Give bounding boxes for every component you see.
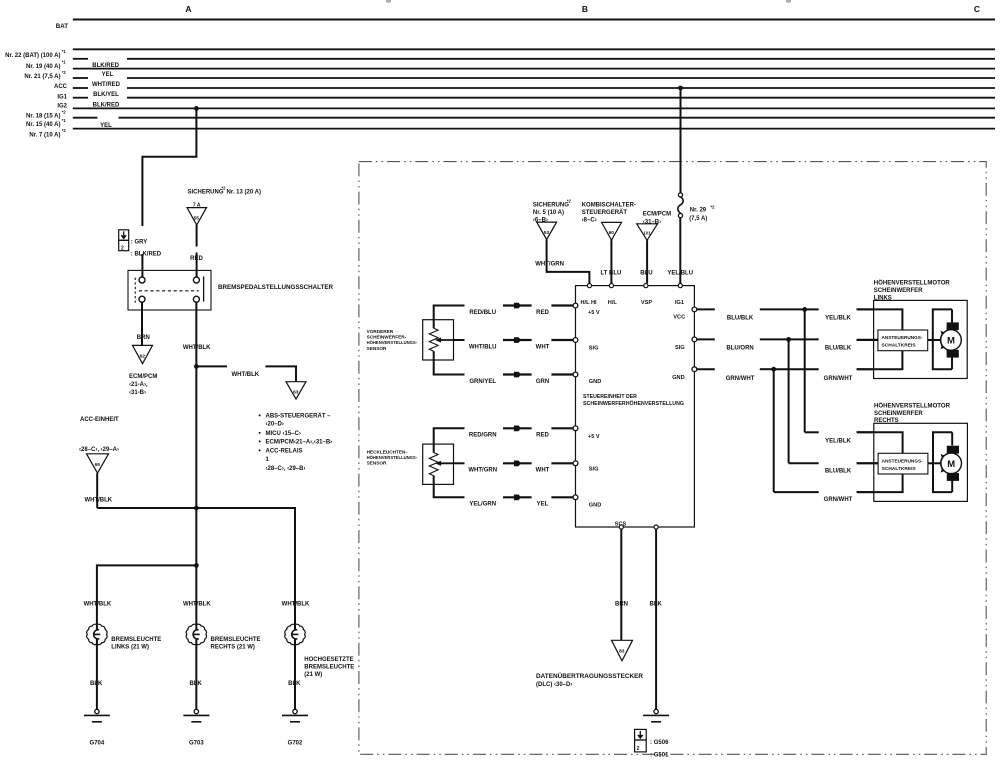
motor M [947, 446, 959, 454]
svg-text:*2: *2 [62, 109, 67, 114]
control unit pins left [573, 303, 578, 308]
svg-text:2: 2 [121, 245, 124, 251]
sensor VORDERER SCHEINWERFER- HÖHENVERSTELLUNGS- SENSOR [423, 320, 454, 360]
wire riser to RECHTS mid [788, 339, 790, 463]
wire SIG BLU/ORN row [697, 338, 715, 340]
svg-text:WHT/BLK: WHT/BLK [183, 602, 211, 608]
svg-text:WHT/BLK: WHT/BLK [183, 345, 211, 351]
svg-text:RECHTS (21 W): RECHTS (21 W) [211, 645, 255, 651]
svg-text:Nr. 7 (10 A): Nr. 7 (10 A) [29, 132, 60, 138]
svg-text:GRN/WHT: GRN/WHT [726, 376, 755, 382]
wire driver to motor [928, 339, 942, 341]
svg-text:IG1: IG1 [57, 94, 67, 100]
svg-text:Nr. 18 (15 A): Nr. 18 (15 A) [26, 114, 60, 120]
svg-text:G702: G702 [288, 740, 303, 746]
svg-text:Nr. 19 (40 A): Nr. 19 (40 A) [26, 64, 60, 70]
svg-text:WHT/RED: WHT/RED [92, 82, 121, 88]
svg-text:VCC: VCC [673, 315, 685, 321]
svg-text:WHT/BLK: WHT/BLK [84, 498, 112, 504]
svg-text:GRN/YEL: GRN/YEL [469, 379, 496, 385]
connector triangle 83 DLC [612, 640, 633, 661]
svg-text:BLK/YEL: BLK/YEL [93, 92, 119, 98]
svg-text:YEL: YEL [102, 72, 114, 78]
svg-text:BRN: BRN [137, 335, 150, 341]
wire riser to RECHTS top [804, 309, 806, 432]
sensor wire bottom [434, 351, 465, 374]
control unit pins bottom [619, 525, 623, 529]
wire YEL/BLK RECHTS row [805, 431, 819, 433]
wire main riser to G703 lamp [195, 366, 197, 624]
svg-text:WHT/GRN: WHT/GRN [468, 468, 497, 474]
svg-text:*2: *2 [711, 205, 716, 210]
svg-text:‹20–D›: ‹20–D› [266, 422, 284, 428]
svg-text:SIG: SIG [589, 467, 599, 473]
svg-text:WHT: WHT [536, 468, 550, 474]
ground G506/G501 [654, 709, 658, 713]
svg-text:ABS-STEUERGERÄT –: ABS-STEUERGERÄT – [266, 413, 332, 420]
svg-text:‹8–C›: ‹8–C› [582, 217, 597, 223]
wire VCC BLU/BLK row [697, 308, 715, 310]
svg-text:ACC-RELAIS: ACC-RELAIS [266, 449, 303, 455]
svg-text:(DLC) ‹30–D›: (DLC) ‹30–D› [536, 682, 572, 688]
wire WHT/BLK lamp feeder bus [97, 508, 295, 625]
wire SCS BRN [620, 529, 622, 640]
svg-text:WHT/BLK: WHT/BLK [282, 602, 310, 608]
svg-text:Nr. 22 (BAT) (100 A): Nr. 22 (BAT) (100 A) [5, 53, 60, 59]
wire to driver bottom [857, 474, 903, 492]
svg-text:Nr. 29: Nr. 29 [690, 208, 707, 214]
junction on IG2 feed line [194, 106, 199, 111]
svg-text:BLK: BLK [288, 681, 301, 687]
svg-text:63: 63 [293, 390, 299, 396]
svg-text:*1: *1 [62, 60, 67, 65]
svg-text:: BLK/RED: : BLK/RED [131, 251, 162, 257]
sensor wiper arrow [437, 339, 454, 341]
ground G703 [194, 709, 198, 713]
ground G704 [95, 709, 99, 713]
svg-text:SCHEINWERFER: SCHEINWERFER [874, 288, 923, 294]
svg-text:ANSTEUERUNGS-: ANSTEUERUNGS- [882, 335, 924, 340]
svg-text:2: 2 [637, 746, 640, 752]
svg-text:‹28–C›, ‹29–A›: ‹28–C›, ‹29–A› [79, 447, 119, 453]
sensor wire top [434, 306, 465, 329]
svg-text:STEUEREINHEIT DER: STEUEREINHEIT DER [583, 394, 637, 400]
svg-text:G703: G703 [189, 740, 204, 746]
svg-text:WHT/BLU: WHT/BLU [469, 344, 497, 350]
svg-text:BAT: BAT [56, 23, 68, 30]
sensor wire mid stub [454, 339, 465, 341]
motor supply loop [933, 432, 952, 492]
sensor wire bottom [434, 476, 465, 498]
ground triangle 62 ECM/PCM [133, 345, 153, 363]
control unit STEUEREINHEIT box [576, 286, 695, 527]
sensor wiper arrow [437, 462, 454, 464]
svg-text:YEL: YEL [537, 502, 549, 508]
svg-text:LINKS (21 W): LINKS (21 W) [111, 645, 149, 651]
svg-text:ECM/PCM‹21–A›,‹31–B›: ECM/PCM‹21–A›,‹31–B› [266, 440, 333, 446]
connector triangle 101 [637, 224, 658, 241]
dash-dot frame boundary [359, 162, 986, 755]
svg-text:BLU/BLK: BLU/BLK [825, 468, 852, 474]
svg-text:STEUERGERÄT: STEUERGERÄT [582, 209, 628, 216]
svg-text:HECKLEUCHTEN-: HECKLEUCHTEN- [367, 450, 408, 455]
wire GND GRN/WHT row [697, 368, 715, 370]
svg-text:SCHEINWERFER-: SCHEINWERFER- [367, 335, 407, 340]
svg-text:YEL/GRN: YEL/GRN [469, 502, 496, 508]
svg-text:SCHALTKREIS: SCHALTKREIS [882, 466, 916, 471]
svg-text:BREMSLEUCHTE: BREMSLEUCHTE [211, 637, 261, 643]
svg-text:BREMSLEUCHTE: BREMSLEUCHTE [111, 637, 161, 643]
svg-text:ACC-EINHEIT: ACC-EINHEIT [80, 417, 119, 423]
svg-text:C: C [974, 4, 980, 14]
svg-text:BLK: BLK [90, 681, 103, 687]
circuit breaker Nr. 29 (7,5 A) [678, 193, 682, 197]
fuse symbol 53 [537, 222, 557, 240]
svg-text:Nr. 15 (40 A): Nr. 15 (40 A) [26, 122, 60, 128]
svg-text:WHT/GRN: WHT/GRN [535, 262, 564, 268]
svg-text:SENSOR: SENSOR [367, 346, 387, 351]
wire WHT/BLK from ACC unit [96, 473, 98, 508]
svg-text:(7,5 A): (7,5 A) [689, 216, 707, 222]
svg-text:YEL/BLK: YEL/BLK [825, 316, 851, 322]
svg-text:BRN: BRN [615, 601, 628, 607]
svg-text:SCHALTKREIS: SCHALTKREIS [882, 343, 916, 348]
motor supply loop [933, 309, 952, 369]
wire BAT bus [73, 19, 995, 21]
svg-text:BLK/RED: BLK/RED [92, 63, 119, 69]
svg-text:RED/GRN: RED/GRN [469, 433, 497, 439]
svg-text:IG1: IG1 [675, 300, 684, 306]
svg-text:: GRY: : GRY [131, 240, 147, 246]
svg-text:A: A [185, 4, 191, 14]
svg-text:ANSTEUERUNGS-: ANSTEUERUNGS- [882, 458, 924, 463]
svg-text:101: 101 [643, 231, 651, 236]
ground G702 [293, 709, 297, 713]
svg-text:SICHERUNG: SICHERUNG [533, 203, 569, 209]
svg-text:H/L HI: H/L HI [581, 300, 598, 306]
svg-text:ECM/PCM: ECM/PCM [129, 374, 157, 380]
svg-text:WHT/BLK: WHT/BLK [84, 602, 112, 608]
connector triangle 65 ACC [87, 454, 109, 473]
svg-text:Nr. 5 (10 A): Nr. 5 (10 A) [533, 210, 564, 216]
wire WHT/BLK to ABS list [196, 365, 227, 367]
wire BLK to ground G506 [655, 529, 657, 709]
in-line connector pins 1:GRY 2:BLK/RED [119, 230, 129, 241]
svg-text:HÖHENVERSTELLMOTOR: HÖHENVERSTELLMOTOR [874, 402, 951, 409]
svg-text:SENSOR: SENSOR [367, 461, 387, 466]
svg-text:SIG: SIG [589, 345, 599, 351]
svg-text:*2: *2 [567, 199, 572, 204]
svg-text:BLK: BLK [189, 681, 202, 687]
svg-text:62: 62 [140, 353, 146, 359]
wire to driver top [857, 432, 903, 453]
svg-text:55: 55 [194, 216, 200, 222]
svg-text:H/L: H/L [608, 300, 618, 306]
motor rotation arrows [941, 455, 944, 471]
svg-text:BREMSLEUCHTE: BREMSLEUCHTE [304, 664, 354, 670]
svg-text:M: M [947, 336, 955, 347]
svg-text:GRN/WHT: GRN/WHT [824, 497, 853, 503]
svg-text:BLK/RED: BLK/RED [93, 103, 120, 109]
svg-text:WHT/BLK: WHT/BLK [231, 372, 259, 378]
wire to driver mid [857, 462, 878, 464]
svg-text:BLU/BLK: BLU/BLK [825, 346, 852, 352]
svg-text:*1: *1 [62, 118, 67, 123]
svg-text:KOMBISCHALTER-: KOMBISCHALTER- [582, 203, 636, 209]
sensor wire mid stub [454, 462, 465, 464]
junction branch to G704 [194, 563, 199, 568]
svg-text:+5 V: +5 V [588, 310, 600, 316]
svg-text:60: 60 [609, 230, 615, 236]
svg-text:BREMSPEDALSTELLUNGSSCHALTER: BREMSPEDALSTELLUNGSSCHALTER [218, 284, 333, 291]
svg-text:VSP: VSP [641, 300, 652, 306]
svg-text:GND: GND [589, 503, 601, 509]
svg-text:HÖHENVERSTELLUNGS-: HÖHENVERSTELLUNGS- [367, 454, 418, 460]
svg-text:RED: RED [536, 310, 549, 316]
svg-text:Nr. 13 (20 A): Nr. 13 (20 A) [227, 190, 261, 196]
svg-text:HÖHENVERSTELLUNGS-: HÖHENVERSTELLUNGS- [367, 339, 418, 345]
svg-text:GRN: GRN [536, 379, 549, 385]
wire BLK G703 [195, 644, 197, 709]
wire WHT/BLK main riser [195, 302, 197, 366]
wire riser to RECHTS bottom [773, 369, 775, 492]
junction WHT/BLK to ABS branch [194, 364, 199, 369]
svg-text:ACC: ACC [54, 84, 68, 90]
svg-text:RED/BLU: RED/BLU [469, 310, 496, 316]
consumer list text [259, 414, 261, 416]
connector triangle 60 [602, 222, 622, 240]
svg-text:83: 83 [619, 649, 625, 655]
svg-text:*2: *2 [62, 128, 67, 133]
svg-text:WHT: WHT [536, 344, 550, 350]
svg-text:GND: GND [589, 379, 601, 385]
wire GRN/WHT RECHTS row [774, 491, 819, 493]
svg-text:65: 65 [95, 462, 101, 468]
wire BLK G704 [96, 644, 98, 709]
switch BREMSPEDALSTELLUNGSSCHALTER [128, 270, 211, 310]
svg-text:MICU ‹15–C›: MICU ‹15–C› [266, 431, 301, 437]
svg-text:(21 W): (21 W) [304, 672, 322, 678]
svg-text:HÖHENVERSTELLMOTOR: HÖHENVERSTELLMOTOR [874, 280, 951, 287]
wire BLU/BLK RECHTS row [789, 462, 819, 464]
svg-text:*2: *2 [62, 70, 67, 75]
top tick mark left [386, 0, 391, 3]
svg-text:BLU/BLK: BLU/BLK [727, 316, 754, 322]
svg-text:YEL/BLK: YEL/BLK [825, 439, 851, 445]
svg-text:‹21-A›,: ‹21-A›, [129, 382, 148, 388]
svg-text:SCHEINWERFER: SCHEINWERFER [874, 411, 923, 417]
svg-text:‹31-B›: ‹31-B› [129, 390, 146, 396]
sensor wire top [434, 428, 465, 452]
connector triangle 63 [286, 382, 306, 399]
svg-text:GRN/WHT: GRN/WHT [824, 376, 853, 382]
wire to driver bottom [857, 351, 903, 370]
svg-text:*2: *2 [222, 186, 227, 191]
svg-text:SCHEINWERFERHÖHENVERSTELLUNG: SCHEINWERFERHÖHENVERSTELLUNG [583, 400, 684, 407]
wire branch to G704 lamp [97, 565, 196, 624]
svg-text:M: M [947, 459, 955, 470]
svg-text:SICHERUNG: SICHERUNG [188, 190, 224, 196]
wire BLK G702 [294, 644, 296, 709]
wire to driver mid [857, 339, 878, 341]
wire ACC down to breaker Nr. 29 [680, 88, 682, 193]
ground connector ids [635, 729, 647, 740]
svg-text:VORDERER: VORDERER [367, 329, 394, 334]
control unit pins right [692, 307, 697, 312]
svg-text:: G501: : G501 [650, 752, 669, 758]
junction main riser at feeder [194, 506, 199, 511]
svg-text:DATENÜBERTRAGUNGSSTECKER: DATENÜBERTRAGUNGSSTECKER [536, 673, 644, 680]
svg-text:: G506: : G506 [650, 740, 669, 746]
svg-text:RED: RED [536, 433, 549, 439]
svg-text:*1: *1 [62, 49, 67, 54]
svg-text:+5 V: +5 V [588, 434, 600, 440]
svg-text:HOCHGESETZTE: HOCHGESETZTE [304, 657, 353, 663]
sensor HECKLEUCHTEN- HÖHENVERSTELLUNGS- SENSOR [423, 444, 454, 484]
svg-text:B: B [582, 4, 588, 14]
wire to switch pin A [141, 254, 143, 278]
wire driver to motor [928, 462, 942, 464]
svg-text:BLK: BLK [650, 601, 663, 607]
wire to driver top [857, 309, 903, 330]
svg-text:BLU/ORN: BLU/ORN [726, 346, 753, 352]
svg-text:SIG: SIG [675, 345, 685, 351]
motor rotation arrows [940, 332, 943, 348]
svg-text:‹28–C›, ‹29–B›: ‹28–C›, ‹29–B› [266, 466, 306, 472]
svg-text:ECM/PCM: ECM/PCM [643, 212, 671, 218]
svg-text:GND: GND [672, 375, 684, 381]
top tick mark right [786, 0, 791, 3]
svg-text:Nr. 21 (7,5 A): Nr. 21 (7,5 A) [24, 74, 60, 80]
svg-text:YEL: YEL [100, 123, 112, 129]
wire IG2 branch down-step [142, 108, 196, 226]
wire BRN to ECM/PCM [141, 302, 143, 345]
svg-text:G704: G704 [90, 740, 105, 746]
junction ACC line to Nr.29 [678, 86, 683, 91]
svg-text:53: 53 [544, 230, 550, 236]
motor M [947, 322, 959, 330]
